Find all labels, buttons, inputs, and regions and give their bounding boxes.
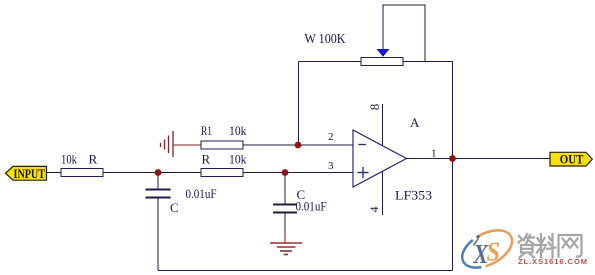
svg-text:0.01uF: 0.01uF [296,199,327,214]
svg-text:S: S [487,236,501,266]
svg-text:R: R [89,152,98,167]
svg-text:ZL.XS1616.COM: ZL.XS1616.COM [518,257,587,266]
svg-text:2: 2 [328,131,334,143]
svg-text:0.01uF: 0.01uF [186,186,217,201]
svg-text:R1: R1 [201,123,212,138]
svg-text:10k: 10k [61,152,77,167]
svg-text:8: 8 [367,104,382,111]
svg-text:INPUT: INPUT [14,166,46,181]
svg-text:10k: 10k [229,152,247,167]
svg-text:R: R [202,152,211,167]
svg-text:10k: 10k [229,123,247,138]
svg-text:1: 1 [431,148,437,160]
svg-text:3: 3 [328,160,334,172]
svg-text:4: 4 [367,207,381,213]
svg-text:LF353: LF353 [395,188,432,203]
svg-text:C: C [170,200,179,215]
svg-text:W 100K: W 100K [305,32,346,47]
svg-text:OUT: OUT [560,151,584,166]
svg-text:A: A [410,115,420,130]
